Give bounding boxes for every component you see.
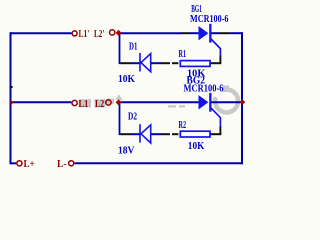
svg-text:R2: R2 <box>179 120 187 131</box>
svg-text:D2: D2 <box>128 112 137 123</box>
svg-text:10K: 10K <box>118 74 135 85</box>
svg-text:L1: L1 <box>79 99 89 110</box>
svg-text:R1: R1 <box>179 49 187 60</box>
svg-text:10K: 10K <box>188 141 205 152</box>
svg-text:L+: L+ <box>24 159 35 170</box>
svg-text:MCR100-6: MCR100-6 <box>190 14 229 25</box>
svg-text:L2': L2' <box>94 29 105 40</box>
svg-text:L2: L2 <box>95 99 104 110</box>
svg-text:MCR100-6: MCR100-6 <box>184 84 224 95</box>
svg-text:D1: D1 <box>129 42 137 53</box>
svg-text:18V: 18V <box>118 145 135 156</box>
svg-text:L-: L- <box>57 159 67 170</box>
svg-text:L1': L1' <box>79 29 90 40</box>
